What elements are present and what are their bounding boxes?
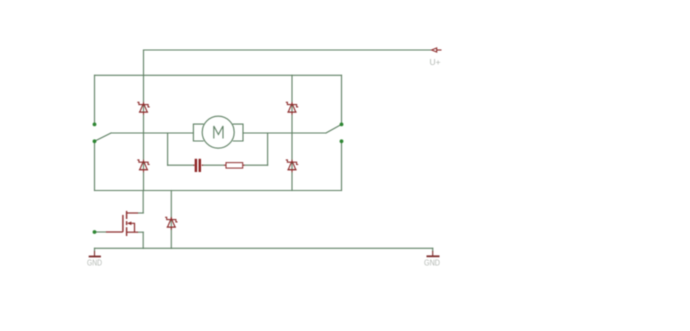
svg-text:GND: GND xyxy=(87,258,102,268)
svg-text:GND: GND xyxy=(424,258,440,268)
svg-text:U+: U+ xyxy=(430,57,441,67)
